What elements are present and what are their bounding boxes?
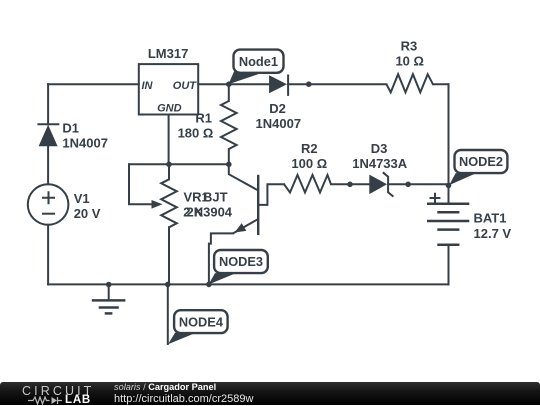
label R1 180 xyxy=(178,110,214,140)
svg-text:R3: R3 xyxy=(401,38,418,53)
label D2 1N4007 xyxy=(256,101,302,131)
svg-text:V1: V1 xyxy=(74,191,90,206)
svg-text:NODE3: NODE3 xyxy=(219,254,263,269)
wire R1 top stub xyxy=(228,84,230,101)
svg-text:R1: R1 xyxy=(195,110,212,125)
junction node3 (Q1 emitter) xyxy=(206,282,212,288)
node NODE4 flag xyxy=(168,310,228,344)
diode D2 xyxy=(269,75,288,96)
svg-text:D1: D1 xyxy=(62,121,79,136)
wire VR1 top stub xyxy=(168,164,170,179)
diode D1 xyxy=(37,124,59,146)
wire Q1 emitter staircase to bottom rail xyxy=(209,233,233,284)
svg-text:100 Ω: 100 Ω xyxy=(291,156,327,171)
svg-text:R2: R2 xyxy=(301,141,318,156)
ground xyxy=(92,285,126,314)
junction GND pin / VR1 top xyxy=(166,162,172,168)
wire mid horizontal (GND node to R1 bottom) xyxy=(129,163,229,165)
wire D2 cathode to R3 xyxy=(288,83,386,85)
wire to VR1 wiper xyxy=(129,164,153,204)
svg-text:12.7 V: 12.7 V xyxy=(474,226,512,241)
label V1 20 V xyxy=(74,191,101,221)
wire bottom rail xyxy=(48,283,448,285)
label R3 10 xyxy=(395,38,424,68)
battery plus sign xyxy=(430,193,441,203)
junction VR1 bottom / node4 stub xyxy=(165,282,171,288)
CircuitLab logo xyxy=(22,384,94,398)
potentiometer VR1 xyxy=(152,179,177,227)
wire R1 bottom stub xyxy=(228,149,230,164)
label BJT 2N3904 xyxy=(187,190,233,220)
label R2 100 xyxy=(291,141,327,171)
footer bar xyxy=(0,382,540,405)
junction R1 bottom / Q1 collector xyxy=(226,162,232,168)
junction node1 (R1 top / D2 anode) xyxy=(226,81,232,87)
svg-text:10 Ω: 10 Ω xyxy=(395,53,424,68)
resistor R1 xyxy=(221,101,237,149)
svg-text:1N4007: 1N4007 xyxy=(62,136,108,151)
label VR1 2K xyxy=(183,190,209,220)
wire R2 to D3 anode xyxy=(331,183,369,185)
junction D3 cathode wire xyxy=(405,182,411,188)
node Node1 flag xyxy=(229,50,284,85)
svg-text:NODE2: NODE2 xyxy=(459,154,503,169)
svg-text:GND: GND xyxy=(157,102,182,114)
svg-text:BAT1: BAT1 xyxy=(474,211,507,226)
wire D1 anode to V1 plus xyxy=(47,146,49,184)
wire top-left (V1/D1 rail to LM317 IN) xyxy=(48,83,139,85)
wire R3 to right rail corner xyxy=(433,83,449,85)
junction R2 to D3 wire xyxy=(347,182,353,188)
svg-text:20 V: 20 V xyxy=(74,206,101,221)
wire right rail down to battery plus xyxy=(448,84,450,204)
node NODE3 flag xyxy=(209,250,268,285)
regulator U1 LM317 box xyxy=(139,46,198,115)
wire battery minus to bottom rail xyxy=(448,245,450,285)
resistor R2 xyxy=(284,175,331,193)
resistor R3 xyxy=(386,74,433,92)
svg-text:2N3904: 2N3904 xyxy=(187,205,233,220)
svg-text:1N4007: 1N4007 xyxy=(256,116,302,131)
footer title text xyxy=(114,382,216,392)
battery BAT1 xyxy=(427,204,469,245)
svg-text:IN: IN xyxy=(142,80,154,92)
label BAT1 12.7 V xyxy=(474,211,512,241)
junction D2 cathode wire xyxy=(306,81,312,87)
junction node2 (battery plus) xyxy=(446,183,452,189)
svg-text:BJT: BJT xyxy=(203,190,228,205)
svg-text:D3: D3 xyxy=(371,141,388,156)
wire left rail upper (to D1 cathode) xyxy=(47,84,49,124)
wire LM317 OUT to D2 anode xyxy=(198,83,269,85)
wire VR1 bottom to bottom rail xyxy=(168,227,170,284)
wire NODE4 stub xyxy=(167,284,169,344)
wire V1 minus to bottom rail xyxy=(47,225,49,285)
svg-text:OUT: OUT xyxy=(173,80,198,92)
label D3 1N4733A xyxy=(352,141,408,171)
wire R1 node to Q1 collector xyxy=(229,164,258,190)
svg-text:Node1: Node1 xyxy=(239,54,278,69)
wire Q1 base tap to R2 xyxy=(258,184,284,205)
svg-text:D2: D2 xyxy=(269,101,286,116)
voltage source V1 xyxy=(28,184,69,225)
svg-text:180 Ω: 180 Ω xyxy=(178,125,214,140)
zener diode D3 xyxy=(369,172,393,196)
svg-text:1N4733A: 1N4733A xyxy=(352,156,408,171)
junction ground tap xyxy=(106,282,112,288)
svg-text:NODE4: NODE4 xyxy=(179,315,224,330)
wire D3 cathode to right rail xyxy=(388,183,448,185)
svg-text:LM317: LM317 xyxy=(148,46,188,61)
transistor Q1 (2N3904) xyxy=(233,175,258,235)
node NODE2 flag xyxy=(449,150,507,185)
label D1 1N4007 xyxy=(62,121,108,151)
wire LM317 GND pin down xyxy=(168,115,170,165)
